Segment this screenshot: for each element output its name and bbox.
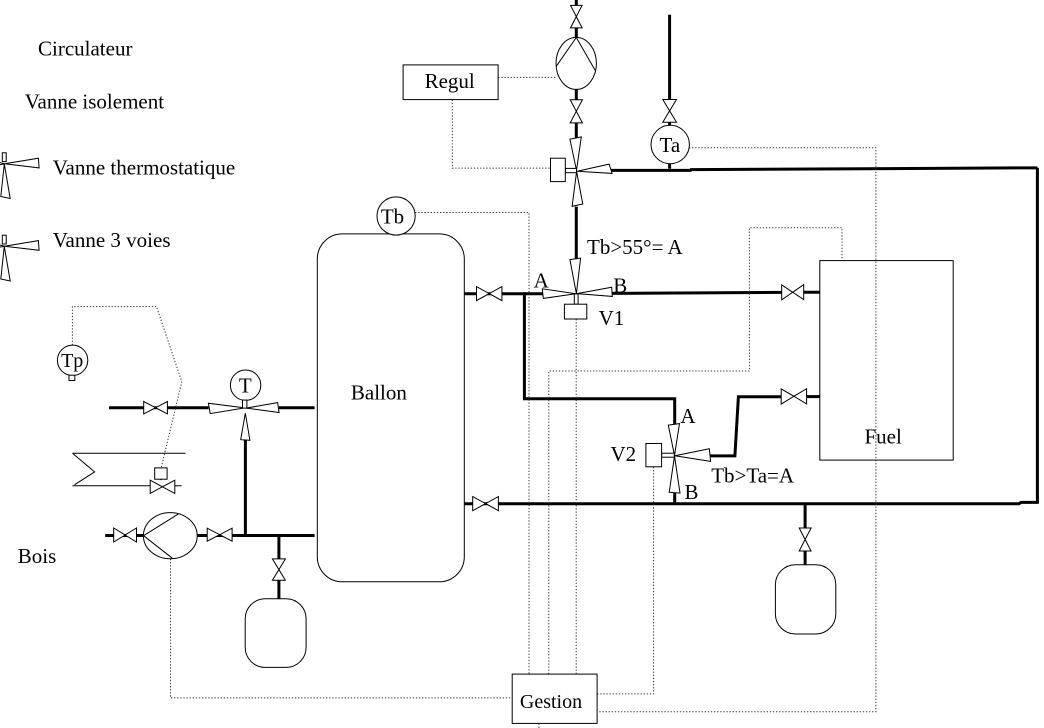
wire pennant bottom line <box>73 485 182 487</box>
wire Ta sensor to main pipe <box>668 163 671 169</box>
pump Bois circulator <box>143 513 197 559</box>
valve isolation Bois left <box>114 528 125 542</box>
wire Ballon top outlet to junction <box>464 292 542 295</box>
svg-text:T: T <box>239 373 252 397</box>
wire valve B5 to Fuel boiler <box>804 291 820 294</box>
wire V2 right port zigzag to Fuel lower valve <box>708 397 781 456</box>
wire V1 B port to Fuel boiler valve <box>612 292 782 293</box>
svg-text:B: B <box>685 480 699 504</box>
valve isolation Bois right <box>207 528 220 541</box>
svg-text:Fuel: Fuel <box>865 424 903 448</box>
valve TV1 top mixing valve <box>551 137 613 206</box>
wire dotted Tb sensor to Gestion <box>415 213 529 675</box>
legend symbol 3-way valve <box>0 235 39 281</box>
sensor Ta <box>651 125 689 163</box>
wire valve B1 to pump PU1 <box>575 28 578 39</box>
svg-text:Tb>Ta=A: Tb>Ta=A <box>711 463 795 487</box>
svg-text:Vanne isolement: Vanne isolement <box>25 89 165 113</box>
valve V2 3-way <box>646 424 711 494</box>
wire pennant top line <box>73 452 186 454</box>
svg-text:Circulateur: Circulateur <box>38 37 132 61</box>
wire right vessel valve to vessel <box>804 551 807 565</box>
sensor Tb <box>377 197 415 235</box>
wire dotted Gestion to Fuel burner <box>549 228 842 674</box>
wire Bois return pipe <box>105 534 314 537</box>
valve isolation left vessel <box>272 559 285 570</box>
valve isolation Ta branch <box>663 100 677 111</box>
svg-text:A: A <box>680 404 696 428</box>
wire T valve to Ballon left <box>279 406 315 409</box>
valve thermostatic on heating line <box>150 468 175 494</box>
sensor Tp <box>57 345 87 375</box>
wire bottom return pipe <box>464 502 1039 503</box>
legend symbol thermostatic valve <box>0 153 39 199</box>
wire dotted Tp sensor to thermostatic valve actuator <box>72 307 181 468</box>
svg-text:V1: V1 <box>599 306 625 330</box>
controller box Gestion <box>512 674 597 723</box>
valve T thermostatic mixing <box>208 400 279 440</box>
svg-text:Tb: Tb <box>381 204 404 228</box>
svg-text:Tp: Tp <box>61 350 83 372</box>
wire TV1 down port to valve V1 top port <box>575 207 578 259</box>
valve isolation Fuel upper inlet <box>782 285 793 300</box>
svg-text:Vanne 3 voies: Vanne 3 voies <box>53 228 171 252</box>
wire main hot pipe TV1 to right edge <box>611 168 1038 171</box>
svg-text:Ballon: Ballon <box>351 380 407 404</box>
valve isolation top of pump PU1 <box>571 5 583 16</box>
wire V2 B port to bottom return <box>673 492 676 503</box>
wire dotted Regul to TV1 actuator <box>452 100 550 168</box>
boiler Fuel box <box>820 261 953 461</box>
svg-text:Ta: Ta <box>659 133 680 157</box>
expansion vessel right <box>775 565 835 634</box>
wire Ta branch vertical top <box>668 15 671 100</box>
valve isolation Ballon bottom outlet <box>473 497 486 511</box>
expansion vessel left <box>245 599 306 668</box>
pump top circulator <box>556 37 596 89</box>
svg-text:Gestion: Gestion <box>520 691 582 713</box>
wire pennant chevron <box>73 453 95 485</box>
wire valve B2 to mixing valve TV1 <box>575 123 578 138</box>
wire dotted V1 actuator to Gestion <box>575 319 577 674</box>
sensor T <box>230 370 260 400</box>
svg-text:V2: V2 <box>611 442 637 466</box>
wire dotted Gestion bottom stub <box>538 724 540 728</box>
valve isolation Ballon top outlet <box>477 287 490 301</box>
svg-text:Regul: Regul <box>425 69 475 93</box>
wire dotted Ta sensor to Gestion right <box>597 148 876 712</box>
valve isolation below pump PU1 <box>570 100 582 112</box>
valve isolation right vessel <box>799 528 811 540</box>
wire dotted Bois pump to Gestion left <box>171 559 513 698</box>
wire Ta valve to Ta sensor <box>668 122 671 127</box>
wire right vessel drop <box>804 504 807 529</box>
svg-text:Vanne thermostatique: Vanne thermostatique <box>53 155 236 179</box>
wire right edge vertical return <box>1036 168 1039 503</box>
svg-text:A: A <box>534 268 550 292</box>
wire left vessel drop <box>277 536 280 560</box>
wire pump PU1 to valve B2 <box>575 89 578 100</box>
svg-text:B: B <box>613 274 627 298</box>
valve V1 3-way <box>542 258 612 319</box>
wire left vessel valve to vessel <box>277 580 280 599</box>
wire dotted Regul to pump PU1 <box>498 76 556 78</box>
valve isolation Fuel lower inlet <box>781 389 794 404</box>
svg-text:Bois: Bois <box>18 544 57 568</box>
wire junction drop and lower run to V2 A port <box>524 292 674 425</box>
svg-text:Tb>55°= A: Tb>55°= A <box>587 235 684 259</box>
tank Ballon <box>317 234 464 582</box>
valve isolation left heating pipe <box>144 402 156 414</box>
wire T valve bottom port down <box>244 439 247 536</box>
wire dotted V2 actuator to Gestion right <box>597 467 653 694</box>
wire left heating pipe to T valve <box>109 406 209 409</box>
wire valve B6 to Fuel boiler lower <box>807 395 820 398</box>
controller box Regul <box>403 65 498 100</box>
wire top stub above valve B1 <box>575 0 578 6</box>
